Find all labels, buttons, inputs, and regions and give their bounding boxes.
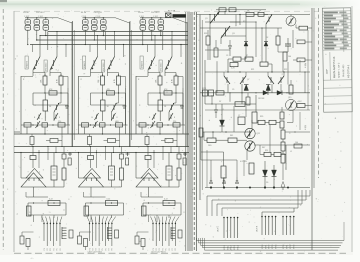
- svg-text:D5: D5: [246, 89, 248, 91]
- svg-text:OUT R: OUT R: [257, 225, 259, 232]
- wire: [159, 127, 161, 134]
- wire: [265, 24, 267, 42]
- inductor L302: [209, 90, 214, 96]
- sheet right dashed border: [318, 8, 320, 178]
- connector J5 pins: [261, 216, 263, 235]
- wire: [90, 215, 92, 222]
- svg-text:Q11: Q11: [257, 133, 260, 135]
- fuse symbol F1: [166, 13, 172, 18]
- wire: [107, 70, 109, 76]
- svg-text:c: c: [96, 63, 97, 65]
- junction: [151, 17, 152, 18]
- svg-text:2SC1815: 2SC1815: [94, 12, 103, 14]
- transistor Q310: [151, 121, 156, 128]
- lower bus wire B: [14, 152, 189, 154]
- wire: [47, 147, 49, 161]
- junction: [264, 186, 266, 188]
- svg-text:P5: P5: [102, 248, 104, 250]
- resistor R320: [207, 138, 216, 143]
- resistor R302: [174, 76, 178, 85]
- resistor R309: [230, 63, 238, 67]
- junction: [45, 35, 46, 36]
- svg-text:P2: P2: [47, 248, 49, 250]
- wire: [216, 139, 228, 141]
- vertical cable bus wire 4: [196, 12, 198, 251]
- resistor R101: [43, 76, 47, 85]
- transistor pair Q301: [140, 20, 146, 25]
- sheet left edge dashed border: [2, 9, 4, 250]
- svg-text:2SA970: 2SA970: [83, 60, 86, 68]
- transistor pair Q201: [83, 20, 89, 25]
- op-amp U2A: [84, 169, 101, 179]
- svg-text:RY1: RY1: [203, 88, 207, 90]
- wire: [123, 203, 125, 215]
- op-amp U1A: [26, 169, 43, 179]
- channel divider wire 1b: [73, 30, 75, 140]
- svg-text:R47: R47: [262, 147, 265, 149]
- terminal ladder channel 1: [61, 227, 63, 239]
- resistor R203: [107, 91, 115, 95]
- junction: [239, 14, 240, 15]
- right second rail wire: [200, 27, 282, 29]
- svg-text:R33: R33: [204, 33, 207, 35]
- svg-text:P6: P6: [169, 248, 171, 250]
- op-amp input ticks channel 3: [143, 178, 145, 181]
- value label vertical strip channel 1: [25, 56, 28, 69]
- channel 3 emitter drop wires: [142, 30, 144, 44]
- wire: [239, 15, 241, 26]
- resistor R111: [27, 206, 32, 216]
- resistor R210: [106, 201, 118, 206]
- resistor R109: [62, 168, 66, 180]
- wire: [168, 112, 170, 121]
- channel divider wire 1: [72, 21, 74, 147]
- wire: [209, 15, 211, 61]
- vertical cable bus dashed wire: [193, 12, 195, 251]
- wire: [137, 231, 149, 233]
- junction: [44, 92, 45, 93]
- channel 2 output loop wire bottom: [86, 214, 124, 216]
- svg-text:c: c: [153, 63, 154, 65]
- connector J6 pins: [282, 216, 284, 235]
- wire: [278, 51, 288, 53]
- resistor R102: [59, 76, 63, 85]
- resistor R311: [289, 85, 293, 94]
- svg-text:L1: L1: [290, 151, 292, 153]
- resistor R303: [299, 26, 308, 30]
- op-amp feed wire channel 3: [135, 153, 137, 179]
- transistor Q307: [169, 103, 174, 112]
- resistor R204: [101, 100, 106, 111]
- transistor Q307: [268, 76, 274, 84]
- svg-text:C 102: C 102: [96, 16, 101, 18]
- svg-text:D7: D7: [219, 101, 221, 103]
- channel 1 left rail wire: [20, 76, 22, 134]
- channel 3 right edge wire: [186, 22, 188, 147]
- channel 2 left rail wire: [78, 76, 80, 134]
- svg-text:SHEET 1 OF 2: SHEET 1 OF 2: [339, 62, 341, 78]
- op-amp feed wire channel 1: [20, 153, 22, 179]
- svg-text:Q1: Q1: [205, 18, 208, 20]
- op-amp U2B: [79, 173, 104, 187]
- transistor Q207: [112, 103, 117, 112]
- connector J6 fan wires: [262, 211, 294, 213]
- capacitor C23: [126, 158, 129, 165]
- channel 1 lower wire: [21, 124, 70, 126]
- wire: [33, 187, 35, 197]
- resistor R202: [117, 76, 121, 85]
- wire: [216, 61, 218, 93]
- capacitor C24: [78, 236, 82, 244]
- transistor pair Q203: [101, 20, 107, 25]
- junction: [271, 71, 272, 72]
- op-amp U3A: [141, 169, 158, 179]
- transistor Q302: [221, 26, 230, 38]
- right vertical rail wire 2: [313, 8, 315, 188]
- wire: [241, 84, 243, 104]
- resistor R332: [297, 40, 305, 44]
- svg-text:C 102: C 102: [38, 16, 43, 18]
- wire: [26, 127, 28, 134]
- transistor Q304 with case circle: [286, 16, 296, 26]
- wire: [287, 62, 289, 85]
- resistor R201: [101, 76, 105, 85]
- svg-text:P1: P1: [89, 248, 91, 250]
- junction: [168, 202, 169, 203]
- transistor Q106: [50, 57, 57, 71]
- resistor R212: [115, 230, 119, 238]
- resistor R315: [258, 120, 265, 124]
- bottom return wires: [197, 240, 345, 242]
- channel 3 mid wire: [148, 92, 183, 94]
- op-amp U1B: [21, 173, 46, 187]
- trim cross channel 1: [69, 152, 71, 156]
- value label vertical strip channel 2: [83, 56, 86, 69]
- wire: [211, 95, 213, 104]
- wire: [91, 72, 103, 74]
- resistor R310: [216, 91, 224, 95]
- junction: [283, 71, 284, 72]
- svg-text:D2: D2: [266, 37, 268, 39]
- svg-text:2SA970: 2SA970: [140, 60, 143, 68]
- svg-text:P1: P1: [153, 248, 155, 250]
- resistor R331: [214, 48, 218, 57]
- channel 2 right rail wire: [125, 88, 127, 134]
- transistor Q308: [152, 113, 156, 120]
- resistor R326 chain: [281, 130, 285, 139]
- svg-text:c: c: [38, 63, 39, 65]
- transistor Q305: [148, 57, 155, 71]
- resistor R313: [145, 137, 149, 145]
- capacitor C30: [180, 105, 184, 107]
- wire: [205, 71, 310, 73]
- diode D301 filled: [244, 42, 248, 47]
- resistor R305: [139, 123, 146, 127]
- transistor Q208: [95, 113, 99, 120]
- capacitor C306: [228, 45, 232, 47]
- resistor R205: [82, 123, 89, 127]
- channel 2 output loop wire top: [86, 202, 124, 204]
- resistor R304: [158, 100, 163, 111]
- resistor R112: [69, 230, 73, 238]
- left page edge mark: [0, 0, 7, 2]
- wire: [33, 72, 45, 74]
- svg-text:P2: P2: [93, 248, 95, 250]
- resistor R307: [173, 123, 180, 127]
- resistor R317: [280, 112, 284, 119]
- capacitor C10: [65, 105, 69, 107]
- junction: [142, 17, 143, 18]
- junction: [241, 92, 242, 93]
- channel 3 output loop wire bottom: [143, 214, 181, 216]
- wire: [257, 121, 258, 123]
- svg-text:8: 8: [174, 117, 175, 119]
- wire: [67, 93, 69, 125]
- wire: [161, 186, 179, 188]
- resistor R324: [249, 163, 254, 174]
- trim cross channel 2: [127, 152, 129, 156]
- resistor R303: [164, 91, 172, 95]
- wire: [141, 196, 163, 198]
- wire: [227, 84, 229, 93]
- resistor R306: [157, 123, 163, 127]
- wire: [230, 21, 256, 23]
- svg-text:P6: P6: [60, 248, 62, 250]
- resistor R213: [88, 137, 92, 145]
- resistor R214: [108, 139, 116, 143]
- resistor R110: [48, 201, 60, 206]
- diode D303 filled right-pointing: [263, 91, 268, 96]
- channel 2 cluster stem wires: [84, 18, 86, 20]
- junction: [151, 39, 152, 40]
- transistor Q109: [54, 113, 58, 120]
- junction: [118, 92, 119, 93]
- svg-text:P8: P8: [112, 248, 114, 250]
- connector J4 pins: [223, 217, 225, 238]
- junction: [212, 131, 213, 132]
- connector J2 pins: [89, 222, 91, 241]
- trim cross channel 3: [184, 152, 186, 156]
- svg-text:Q3: Q3: [232, 33, 235, 35]
- svg-text:P1: P1: [44, 248, 46, 250]
- wire: [104, 186, 122, 188]
- resistor R333: [297, 58, 305, 62]
- wire: [245, 106, 247, 117]
- svg-text:2SC2240: 2SC2240: [45, 62, 47, 71]
- channel 3 rail turn wires: [162, 32, 164, 51]
- capacitor C32: [177, 154, 181, 159]
- wire: [90, 187, 92, 197]
- capacitor C31: [145, 156, 151, 160]
- wire: [221, 35, 246, 37]
- wire: [224, 12, 226, 15]
- junction: [223, 186, 225, 188]
- right top rail wire: [197, 14, 311, 16]
- resistor R319: [199, 128, 203, 137]
- capacitor C305: [235, 182, 239, 184]
- resistor R316: [269, 120, 276, 124]
- wire: [102, 127, 104, 134]
- junction: [236, 186, 238, 188]
- wire: [180, 203, 182, 215]
- title block outline: [322, 8, 352, 112]
- right section left rail 2: [201, 20, 203, 190]
- wire: [32, 70, 34, 76]
- channel 1 rail turn wires: [47, 32, 49, 51]
- wire inverting input channel 2: [96, 150, 98, 168]
- svg-text:P4: P4: [162, 248, 164, 250]
- junction: [111, 202, 112, 203]
- wire: [147, 70, 149, 76]
- resistor R104: [43, 100, 48, 111]
- wire: [147, 93, 149, 105]
- svg-text:P7: P7: [109, 248, 111, 250]
- resistor R208: [109, 166, 115, 180]
- wire: [44, 127, 46, 134]
- svg-text:0.22: 0.22: [164, 199, 168, 201]
- wire: [105, 147, 107, 161]
- channel 3 module top edge wire: [136, 76, 148, 78]
- channel 2 lower wire: [79, 124, 128, 126]
- channel 1 top collector wire: [25, 17, 48, 19]
- junction: [85, 44, 86, 45]
- channel 3 top collector wire: [140, 17, 163, 19]
- resistor R327 chain: [281, 142, 285, 151]
- channel 2 row wire: [91, 104, 126, 106]
- transistor Q306: [240, 76, 246, 84]
- right margin vertical rule: [351, 6, 353, 252]
- resistor R310: [163, 201, 175, 206]
- resistor R311: [142, 206, 147, 216]
- channel 3 right rail wire: [182, 88, 184, 134]
- svg-text:C7: C7: [238, 115, 240, 117]
- transistor Q305: [224, 76, 230, 84]
- svg-text:100: 100: [295, 142, 298, 144]
- svg-text:OUT L: OUT L: [218, 225, 220, 232]
- svg-text:2SA970: 2SA970: [25, 60, 28, 68]
- junction: [175, 92, 176, 93]
- value label strip 2 channel 1: [44, 60, 47, 72]
- resistor R318: [280, 121, 284, 128]
- lower bus wire A: [14, 146, 189, 148]
- resistor R314: [165, 139, 173, 143]
- junction: [148, 202, 149, 203]
- wire bus taps: [65, 45, 67, 58]
- output ground bus wire: [205, 187, 310, 189]
- svg-text:2SC2240: 2SC2240: [160, 62, 162, 71]
- wire: [84, 127, 86, 134]
- transistor Q311 output: [245, 141, 255, 151]
- diode D304 filled right-pointing: [277, 91, 282, 96]
- wire: [141, 127, 143, 134]
- resistor R314: [252, 112, 257, 123]
- svg-text:AMP: AMP: [326, 69, 329, 74]
- transistor Q306: [165, 57, 172, 71]
- resistor R321: [228, 138, 237, 143]
- capacitor C22: [120, 154, 124, 159]
- wire: [125, 93, 127, 125]
- channel 3 left rail wire: [135, 76, 137, 134]
- resistor R114: [50, 139, 58, 143]
- wire: [246, 151, 248, 160]
- junction: [94, 17, 95, 18]
- svg-text:MAIN AMP P.C.B: MAIN AMP P.C.B: [332, 57, 336, 79]
- resistor R302: [258, 12, 264, 16]
- svg-text:2SC1815: 2SC1815: [36, 12, 45, 14]
- title block row text: [324, 12, 338, 14]
- wire: [282, 128, 284, 130]
- value label strip 2 channel 2: [102, 60, 105, 72]
- junction: [27, 17, 28, 18]
- zener D31: [141, 239, 145, 247]
- resistor R330: [206, 36, 210, 45]
- junction: [142, 44, 143, 45]
- resistor R312: [178, 230, 182, 238]
- junction: [160, 17, 161, 18]
- resistor R334: [246, 97, 250, 105]
- svg-text:100: 100: [288, 56, 291, 58]
- channel 2 module top edge wire: [79, 76, 91, 78]
- channel divider wire 2: [129, 21, 131, 147]
- wire: [111, 112, 113, 121]
- supply rail wire 1: [48, 31, 188, 33]
- channel 2 top collector wire: [83, 17, 106, 19]
- svg-text:Q7: Q7: [247, 79, 249, 81]
- wire: [156, 215, 158, 222]
- junction: [36, 39, 37, 40]
- svg-text:0.22: 0.22: [49, 199, 53, 201]
- supply rail wire 3: [36, 39, 188, 41]
- junction: [227, 71, 228, 72]
- channel 1 module top edge wire: [21, 76, 33, 78]
- junction: [94, 39, 95, 40]
- wire: [205, 109, 310, 111]
- svg-text:P5: P5: [166, 248, 168, 250]
- wire: [280, 84, 282, 93]
- junction: [210, 186, 212, 188]
- svg-text:P7: P7: [172, 248, 174, 250]
- wire: [251, 120, 253, 128]
- channel 2 mid wire: [91, 92, 126, 94]
- channel 1 output loop wire bottom: [28, 214, 66, 216]
- svg-text:1N 4a: 1N 4a: [81, 12, 87, 14]
- wire: [164, 70, 166, 76]
- left margin tick: [14, 131, 20, 133]
- resistor R305: [283, 52, 287, 61]
- svg-text:R21: R21: [251, 69, 254, 71]
- svg-text:C4O7 C417 R4O1: C4O7 C417 R4O1: [151, 252, 166, 254]
- terminal ladder channel 3: [170, 227, 172, 239]
- junction: [273, 186, 275, 188]
- zener D11: [26, 239, 30, 247]
- wire: [55, 147, 57, 153]
- wire: [99, 215, 101, 222]
- junction: [159, 92, 160, 93]
- svg-text:1N 4a: 1N 4a: [138, 12, 144, 14]
- capacitor C303: [209, 182, 213, 184]
- wire: [162, 147, 164, 161]
- diode D308 filled up: [244, 85, 249, 91]
- svg-text:P3: P3: [96, 248, 98, 250]
- supply rail wire 2: [40, 35, 188, 37]
- wire: [176, 127, 178, 134]
- title block vertical divider: [342, 8, 345, 52]
- channel 2 right edge wire: [129, 22, 131, 147]
- transistor Q303: [266, 15, 272, 25]
- resistor R301: [158, 76, 162, 85]
- svg-text:R22: R22: [284, 69, 287, 71]
- svg-text:1S1588: 1S1588: [258, 98, 264, 100]
